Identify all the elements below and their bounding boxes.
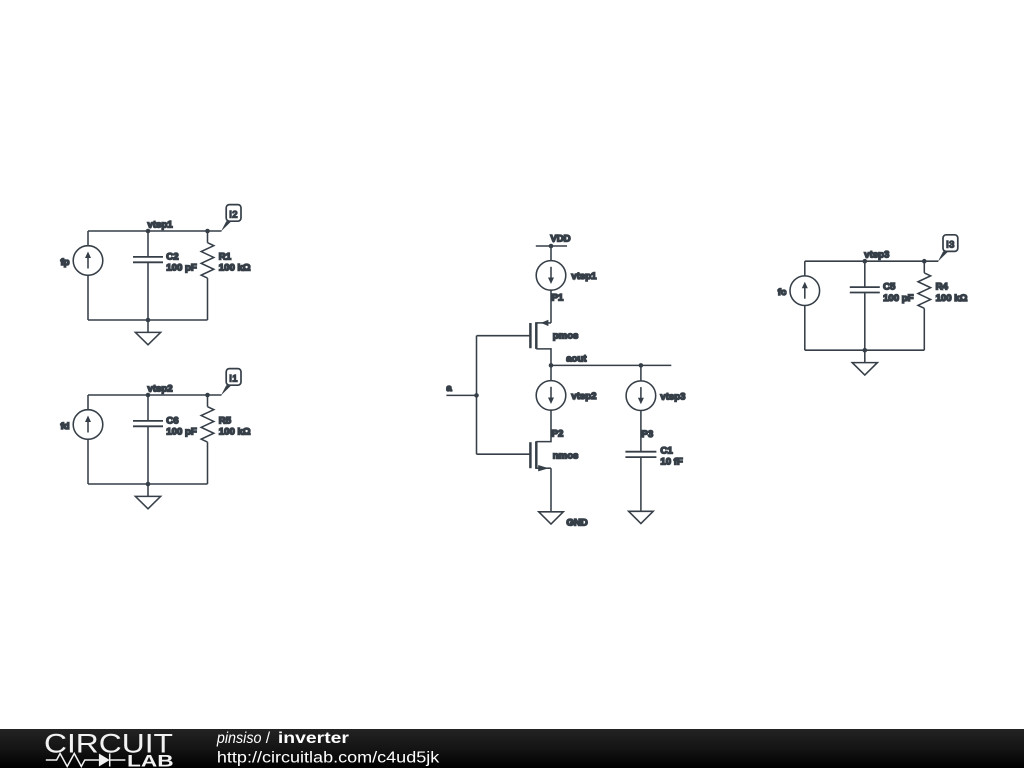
wire: aout rail: [551, 364, 671, 366]
flag I2: pennant stem: [221, 221, 231, 231]
transistor nmos: [530, 441, 551, 511]
svg-text:100 pF: 100 pF: [166, 263, 197, 274]
svg-text:aout: aout: [566, 354, 587, 365]
wire: bottom rail: [88, 483, 208, 485]
resistor R5: [201, 395, 214, 484]
wire: left lead of fd: [87, 395, 89, 410]
svg-text:R4: R4: [936, 282, 949, 293]
svg-text:100 kΩ: 100 kΩ: [936, 293, 968, 304]
current source vtsp3 (P3 branch): [626, 381, 656, 411]
svg-text:R1: R1: [219, 251, 232, 262]
wire: top rail vtsp1: [88, 230, 222, 232]
svg-text:I1: I1: [229, 372, 238, 383]
svg-text:/: /: [266, 730, 271, 747]
svg-text:vtsp1: vtsp1: [148, 219, 174, 230]
junction at bottom rail/ground: [863, 348, 868, 353]
wire: aout to vtsp3: [640, 365, 642, 381]
logo diode cathode bar: [109, 754, 111, 767]
flag I1: box: [226, 369, 241, 386]
svg-text:inverter: inverter: [278, 730, 349, 747]
flag I3: box: [943, 235, 958, 252]
wire: bottom lead of fc: [804, 306, 806, 351]
svg-text:fp: fp: [60, 257, 69, 268]
wire: vtsp1 to pmos drain: [550, 290, 552, 323]
svg-text:http://circuitlab.com/c4ud5jk: http://circuitlab.com/c4ud5jk: [217, 749, 440, 766]
svg-text:vtsp2: vtsp2: [571, 391, 596, 402]
resistor R4: [918, 261, 931, 350]
wire: bottom lead of fp: [87, 275, 89, 320]
resistor R1: [201, 231, 214, 320]
svg-text:100 kΩ: 100 kΩ: [219, 263, 251, 274]
current source fc: [790, 276, 820, 306]
svg-text:fc: fc: [778, 287, 787, 298]
power flag VDD: [536, 244, 567, 249]
svg-text:I2: I2: [229, 208, 238, 219]
wire: pmos gate: [477, 335, 531, 337]
wire: bottom rail: [805, 349, 925, 351]
logo diode triangle: [99, 754, 110, 767]
flag I3: pennant stem: [938, 252, 948, 262]
svg-text:C6: C6: [166, 415, 178, 426]
junction at bottom rail/ground: [146, 318, 151, 323]
svg-text:VDD: VDD: [550, 233, 570, 244]
svg-text:GND: GND: [566, 518, 587, 529]
svg-text:vtsp1: vtsp1: [571, 271, 597, 282]
ground: [852, 350, 877, 375]
logo resistor squiggle: [46, 754, 99, 767]
svg-text:R5: R5: [219, 415, 232, 426]
flag I1: pennant stem: [221, 385, 231, 395]
footer bar: [0, 729, 1024, 768]
current source vtsp2 (P2 branch): [536, 381, 566, 411]
ground GND: [539, 512, 564, 524]
logo diode to LAB wire: [110, 759, 126, 761]
wire: vtsp3 to C1: [640, 411, 642, 452]
svg-text:10 fF: 10 fF: [660, 457, 683, 468]
wire: VDD to vtsp1 source: [550, 246, 552, 261]
junction at a / gate rail: [474, 393, 479, 398]
wire: bottom lead of fd: [87, 439, 89, 484]
svg-text:C5: C5: [883, 282, 896, 293]
wire: top rail vtsp3: [805, 260, 939, 262]
wire: nmos gate: [477, 453, 531, 455]
wire: left lead of fp: [87, 231, 89, 246]
junction at vtsp3/cap top: [863, 259, 868, 264]
svg-text:100 kΩ: 100 kΩ: [219, 427, 251, 438]
junction at vtsp2/res top: [205, 393, 210, 398]
svg-text:P3: P3: [642, 429, 654, 440]
junction at vtsp1/cap top: [146, 229, 151, 234]
wire: input a: [446, 394, 476, 396]
junction at vtsp2/cap top: [146, 393, 151, 398]
svg-text:pmos: pmos: [553, 331, 579, 342]
svg-text:vtsp3: vtsp3: [864, 250, 889, 261]
wire: top rail vtsp2: [88, 394, 222, 396]
svg-text:C2: C2: [166, 251, 178, 262]
svg-text:vtsp3: vtsp3: [660, 392, 685, 403]
svg-text:nmos: nmos: [553, 451, 579, 462]
svg-text:fd: fd: [60, 421, 69, 432]
junction at bottom rail/ground: [146, 482, 151, 487]
svg-text:a: a: [446, 383, 452, 394]
current source vtsp1 (P1 branch): [536, 261, 566, 291]
svg-text:P2: P2: [552, 429, 564, 440]
flag I2: box: [226, 205, 241, 222]
capacitor C2: [133, 231, 163, 320]
svg-text:pinsiso: pinsiso: [216, 730, 262, 747]
node aout: junction: [549, 363, 554, 368]
junction at aout / vtsp3 branch: [639, 363, 644, 368]
svg-text:LAB: LAB: [127, 751, 174, 768]
svg-text:100 pF: 100 pF: [166, 427, 197, 438]
wire: aout to vtsp2: [550, 365, 552, 380]
ground (right branch): [629, 511, 654, 523]
svg-text:100 pF: 100 pF: [883, 293, 914, 304]
wire: vtsp2 to nmos drain: [536, 410, 551, 441]
capacitor C6: [133, 395, 163, 484]
svg-text:vtsp2: vtsp2: [148, 383, 173, 394]
wire: bottom rail: [88, 319, 208, 321]
wire: gate rail vertical: [476, 336, 478, 455]
current source fd: [73, 410, 103, 440]
svg-text:I3: I3: [946, 239, 955, 250]
ground: [135, 320, 160, 345]
wire: left lead of fc: [804, 261, 806, 276]
svg-text:C1: C1: [660, 446, 673, 457]
ground: [135, 484, 160, 509]
svg-text:P1: P1: [552, 293, 564, 304]
junction at vtsp1/res top: [205, 229, 210, 234]
capacitor C1: [625, 452, 656, 511]
junction at vtsp3/res top: [922, 259, 927, 264]
transistor pmos (M?): [530, 320, 551, 366]
current source fp: [73, 246, 103, 276]
capacitor C5: [850, 261, 880, 350]
